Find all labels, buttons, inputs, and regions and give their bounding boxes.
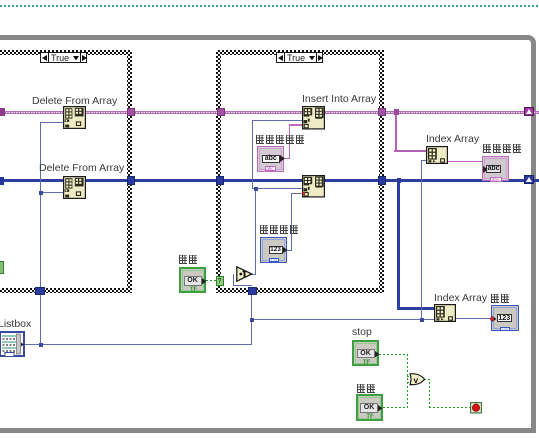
svg-text:v: v [413,375,418,385]
